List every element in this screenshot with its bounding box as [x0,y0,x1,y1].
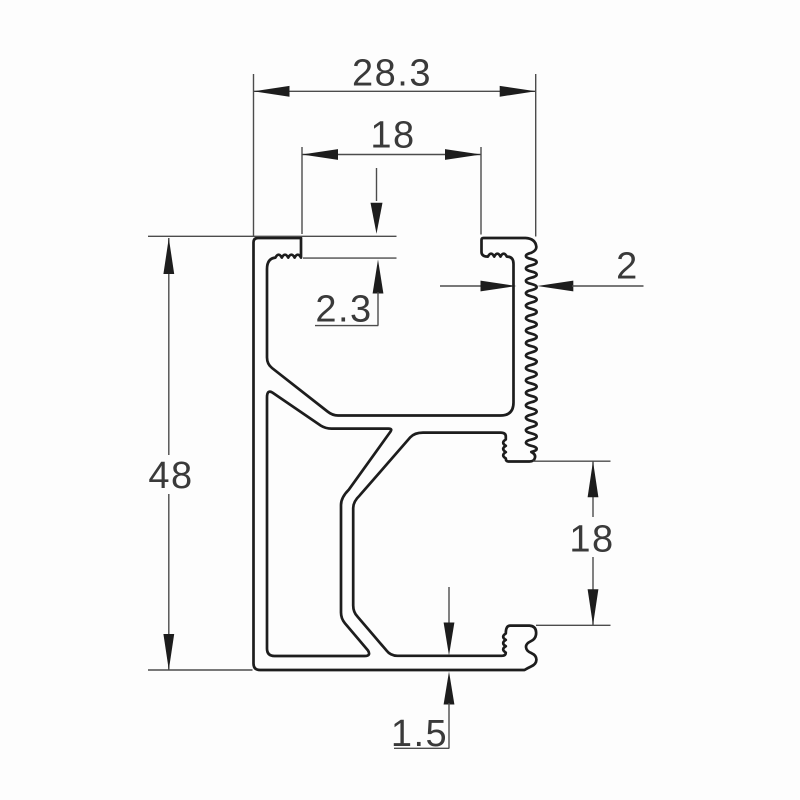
aluminum rail profile: outer contour with serrated clamping wall, top slot lips and bottom foot [254,238,537,670]
svg-text:48: 48 [148,455,193,497]
dimension 1.5: downward arrowhead [444,623,455,656]
dimension 2.3: upper leader line [376,168,378,201]
dimension 2: left-pointing arrowhead [537,281,573,292]
dimension 1.5: upper leader line [448,587,450,624]
svg-text:2.3: 2.3 [315,289,372,331]
dimension 28.3: right arrowhead [500,86,536,97]
dimension 1.5: label underline [394,747,449,749]
svg-text:18: 18 [569,519,614,561]
dimension 18 (top slot): right extension line [480,147,482,235]
dimension 18 (right slot): dimension line lower segment [592,557,594,625]
dimension 48: dimension line upper segment [168,238,170,455]
dimension 48: bottom arrowhead [163,634,174,670]
dimension 2.3: upward arrowhead [373,260,384,294]
dimension 48: dimension line lower segment [168,494,170,670]
dimension 18 (top slot): dimension line [302,154,481,156]
dimension 28.3: left arrowhead [254,86,290,97]
svg-text:28.3: 28.3 [352,53,432,95]
dimension 18 (top slot): right arrowhead [445,149,481,160]
dimension 2.3: downward arrowhead [371,203,383,234]
dimension 18 (right slot): top extension line [533,460,611,462]
dimension 2.3: lower extension line [303,257,397,259]
dimension 2.3: label underline [315,325,378,327]
dimension 28.3: left extension line [253,74,255,236]
dimension 28.3: dimension line [254,90,536,92]
dimension 28.3: right extension line [535,74,537,237]
dimension 2.3: upper extension line (also 48 top extension) [148,235,397,237]
dimension 1.5: upward arrowhead [444,672,455,705]
dimension 1.5: lower leader line [448,703,450,748]
dimension 18 (right slot): bottom arrowhead [588,589,599,625]
dimension 2.3: lower leader line [377,292,379,326]
dimension 18 (right slot): bottom extension line [536,624,611,626]
dimension 2: left leader line [440,285,481,287]
dimension 2: right-pointing arrowhead [481,281,517,292]
svg-text:2: 2 [616,246,639,288]
dimension 18 (top slot): left extension line [301,147,303,234]
dimension 48: top arrowhead [163,238,174,274]
dimension 2: right leader line [572,285,644,287]
svg-text:1.5: 1.5 [391,713,448,755]
dimension 48: bottom extension line [148,669,253,671]
dimension 18 (top slot): left arrowhead [302,149,338,160]
dimension 18 (right slot): dimension line upper segment [592,461,594,517]
aluminum rail profile: inner hollow chamber (lower-left cavity) [267,392,391,656]
svg-text:18: 18 [370,115,415,157]
dimension 18 (right slot): top arrowhead [588,461,599,497]
